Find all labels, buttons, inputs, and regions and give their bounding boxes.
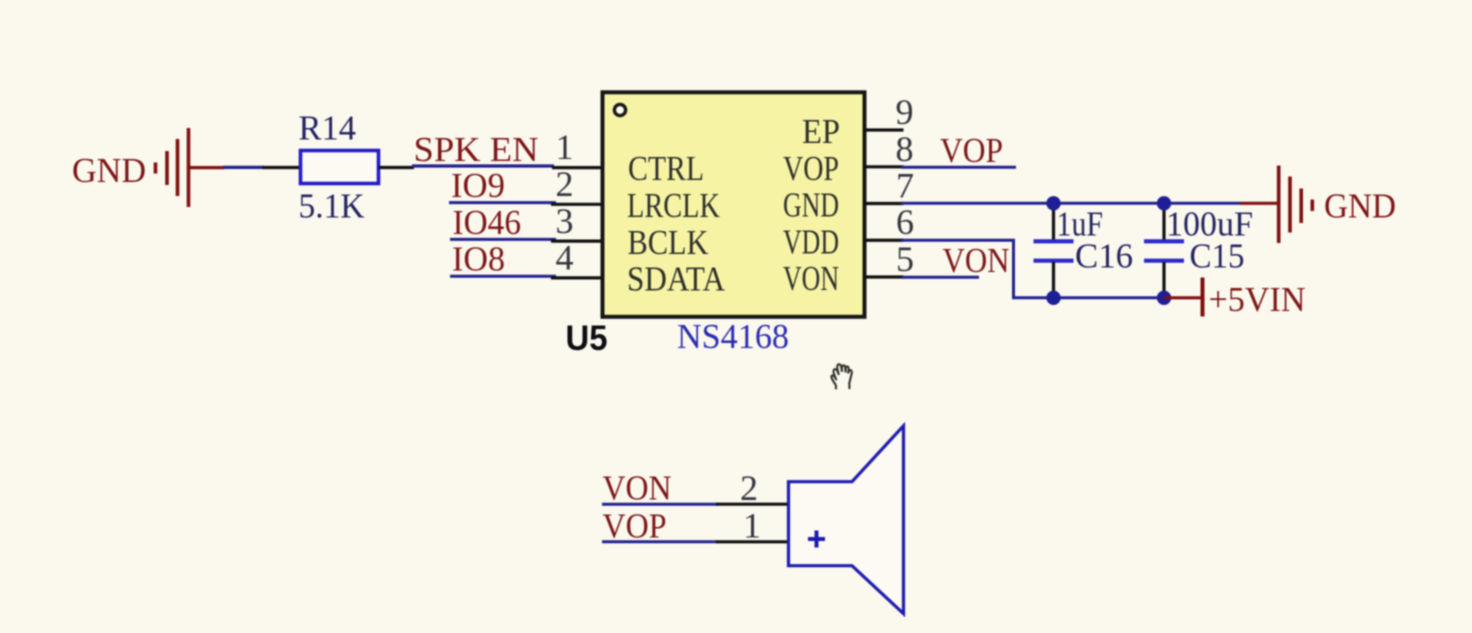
svg-text:5.1K: 5.1K bbox=[299, 187, 365, 226]
svg-text:8: 8 bbox=[896, 129, 914, 169]
svg-text:LRCLK: LRCLK bbox=[627, 186, 720, 225]
svg-text:1: 1 bbox=[743, 506, 761, 546]
svg-text:U5: U5 bbox=[566, 319, 608, 358]
speaker LS1 body and cone bbox=[789, 426, 904, 614]
svg-text:SDATA: SDATA bbox=[627, 260, 726, 299]
svg-text:GND: GND bbox=[783, 186, 839, 225]
svg-text:C15: C15 bbox=[1190, 237, 1245, 276]
wire (pin6 to elbow) bbox=[901, 240, 1164, 298]
pin 1 stub bbox=[552, 166, 603, 169]
svg-text:5: 5 bbox=[896, 239, 914, 279]
wire (GND rail red segment) bbox=[1241, 202, 1278, 205]
svg-text:GND: GND bbox=[1324, 187, 1396, 226]
svg-text:NS4168: NS4168 bbox=[677, 317, 789, 356]
junction node (rail top left) bbox=[1046, 196, 1060, 210]
svg-text:IO46: IO46 bbox=[453, 203, 522, 242]
pin 1 indicator circle bbox=[614, 104, 625, 115]
hand cursor bbox=[831, 364, 852, 388]
svg-text:VOP: VOP bbox=[783, 149, 839, 188]
wire (net VOP to speaker) bbox=[602, 540, 718, 543]
svg-text:R14: R14 bbox=[299, 109, 357, 148]
pin 4 stub bbox=[551, 276, 603, 279]
wire (net IO8) bbox=[450, 275, 556, 278]
junction node (rail top right) bbox=[1157, 196, 1171, 210]
IC U5 (NS4168 amplifier) body bbox=[603, 92, 865, 316]
svg-text:SPK EN: SPK EN bbox=[414, 130, 539, 169]
wire (+5VIN red segment) bbox=[1164, 296, 1202, 299]
speaker pin 1 stub bbox=[716, 540, 788, 543]
svg-text:VON: VON bbox=[603, 469, 672, 508]
svg-text:EP: EP bbox=[802, 112, 840, 151]
capacitor C16 bbox=[1034, 203, 1134, 297]
junction node (rail bottom right) bbox=[1157, 291, 1171, 305]
svg-text:9: 9 bbox=[896, 92, 914, 132]
pin 3 stub bbox=[551, 240, 603, 243]
svg-text:6: 6 bbox=[896, 202, 914, 242]
svg-text:C16: C16 bbox=[1075, 237, 1133, 276]
pin 8 stub bbox=[865, 165, 904, 168]
resistor R14 bbox=[299, 109, 379, 226]
junction node (rail bottom left) bbox=[1046, 291, 1060, 305]
wire (GND red segment) bbox=[189, 166, 225, 169]
power bar +5VIN bbox=[1201, 278, 1205, 317]
wire (net VON to speaker) bbox=[602, 503, 718, 506]
svg-text:VDD: VDD bbox=[783, 222, 839, 261]
wire (net IO46) bbox=[450, 238, 556, 241]
svg-text:+5VIN: +5VIN bbox=[1209, 280, 1306, 319]
capacitor C15 bbox=[1144, 203, 1253, 297]
svg-text:2: 2 bbox=[740, 468, 758, 508]
wire (net IO9) bbox=[449, 201, 556, 204]
wire (net SPK_EN blue) bbox=[412, 164, 554, 167]
svg-text:VON: VON bbox=[943, 241, 1010, 280]
svg-text:VOP: VOP bbox=[940, 131, 1003, 170]
ground GND (left power symbol) bbox=[156, 128, 189, 207]
pin 2 stub bbox=[551, 203, 603, 206]
svg-text:4: 4 bbox=[556, 238, 574, 278]
svg-text:CTRL: CTRL bbox=[628, 149, 704, 188]
wire (net VON right) bbox=[902, 276, 979, 279]
speaker plus mark bbox=[808, 531, 825, 548]
pin 9 stub bbox=[865, 128, 904, 131]
wire (GND to R14 blue segment) bbox=[223, 166, 264, 169]
svg-text:1: 1 bbox=[556, 127, 574, 167]
svg-text:7: 7 bbox=[896, 166, 914, 206]
pin 6 stub bbox=[865, 239, 904, 242]
wire (net VOP right) bbox=[901, 166, 1016, 169]
resistor pin right bbox=[379, 166, 415, 169]
svg-text:3: 3 bbox=[556, 201, 574, 241]
speaker pin 2 stub bbox=[716, 503, 788, 506]
svg-text:GND: GND bbox=[72, 151, 146, 190]
svg-text:VON: VON bbox=[783, 259, 839, 298]
svg-text:2: 2 bbox=[556, 164, 574, 204]
pin 7 stub bbox=[865, 202, 904, 205]
pin 5 stub bbox=[865, 275, 904, 278]
svg-text:IO9: IO9 bbox=[451, 166, 505, 205]
ground GND (right power symbol) bbox=[1279, 166, 1313, 244]
svg-text:BCLK: BCLK bbox=[628, 223, 709, 262]
svg-text:VOP: VOP bbox=[603, 507, 667, 546]
svg-text:IO8: IO8 bbox=[452, 240, 505, 279]
wire (pin7 GND rail blue) bbox=[901, 202, 1241, 205]
resistor pin left bbox=[262, 166, 301, 169]
